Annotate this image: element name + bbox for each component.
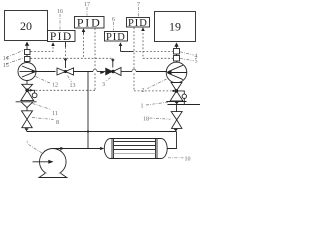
signal sq5 to PID7 [143,32,174,58]
control valve below pump 2 [170,83,186,105]
tank 20 [5,11,48,41]
leader 7 [138,7,140,17]
arrow into PID17 [82,28,86,32]
wire header to valve 18 [176,105,178,112]
svg-text:10: 10 [185,157,191,163]
fan pump 2 [166,62,187,83]
valve 18 [171,112,182,129]
svg-text:7: 7 [137,2,140,8]
wire squares link left [26,55,28,63]
leader 10 [168,157,184,159]
reference labels [3,2,198,163]
controller PID7 [127,18,150,29]
transmitter square 15 [25,57,31,62]
main pipe [36,71,167,73]
wire funnel to valve 8 [26,108,28,111]
valve 8 [22,111,33,128]
wire PID16 output stub [65,42,67,47]
wire PID6 input stub [120,46,122,52]
leader 16 [59,14,61,30]
svg-text:6: 6 [112,17,115,23]
flange bar right [166,101,186,103]
arrow into tank 19 [174,43,178,49]
tank 19 [155,12,196,42]
leader 14 [6,51,23,58]
funnel left [21,102,33,108]
leader 17 [86,7,88,16]
signal actuator right horizontal [134,90,171,92]
arrow valve 18 to return pipe [174,129,178,131]
svg-text:PID: PID [50,31,73,43]
return pipe bottom [27,131,177,133]
valve 3 [105,68,121,76]
leader 12 [36,77,52,84]
fan pump 12 [18,63,37,85]
circulation pump [33,149,67,178]
leader 15 [6,58,23,64]
svg-text:2: 2 [142,88,145,94]
flow arrow into exchanger [100,147,104,150]
svg-text:PID: PID [106,32,126,43]
arrow into PID16 [51,42,55,46]
svg-text:19: 19 [169,20,181,34]
arrow valve 8 to return pipe [24,128,28,131]
signal PID7 down [133,27,135,69]
signal H2 up to PID17 [83,34,85,59]
leader 5 [180,59,194,61]
leader circulation pump [29,145,44,155]
leader 11 [33,104,52,110]
leader 6 [113,22,115,31]
wire center vertical drop [87,72,89,149]
arrow into tank 20 [25,42,29,50]
leader 13 [68,76,72,83]
junction node bottom cross [87,130,89,132]
arrow onto right header [175,102,179,105]
controller PID16 [48,31,76,44]
transmitter square 5 [174,56,180,62]
svg-text:16: 16 [57,9,63,15]
wire valve 3 stem [112,58,114,67]
controller PID6 [105,32,128,43]
wire PID17 input stub [83,31,85,34]
leader 2 [148,79,167,89]
transmitter square 4 [174,49,180,55]
svg-text:14: 14 [3,56,9,62]
arrow into PID7 [141,27,145,31]
arrow into PID6 [119,42,123,46]
svg-text:17: 17 [84,2,90,8]
discharge pipe [53,148,100,150]
leader lines dash-dot [6,7,194,158]
leader 4 [180,52,194,55]
flow arrow discharge [60,147,64,150]
signal sq15 horizontal [31,57,113,59]
leader 1 [146,102,170,105]
valve 13 [57,68,74,75]
arrow down to valve 13 [64,59,68,62]
svg-text:11: 11 [52,111,58,117]
svg-text:1: 1 [141,104,144,110]
svg-text:13: 13 [70,83,76,89]
header line right edge [168,104,201,106]
transmitter square 14 [25,50,31,55]
wire valve 13 stem [65,58,67,68]
signal sq4 to PID6 [133,51,174,53]
svg-text:8: 8 [56,120,59,126]
controller PID17 [75,16,105,30]
heat exchanger 10 [104,139,167,159]
signal PID17 down [94,28,96,69]
svg-text:20: 20 [20,19,32,33]
arrow down to valve 3 [111,59,115,62]
flow arrow on pipe [100,71,104,74]
svg-text:12: 12 [52,83,58,89]
svg-text:PID: PID [77,16,102,30]
control valve below pump 12 [21,84,37,100]
crossover hop left [93,69,97,71]
signal sq14 to PID16 [31,46,54,52]
flange bar left [16,101,37,103]
crossover hop right [132,69,136,71]
signal wires dashed [31,27,174,91]
wire squares link right [176,54,178,62]
signal actuator left horizontal [34,89,96,91]
signal PID16 to valve 13 [65,47,67,58]
svg-text:PID: PID [128,18,148,29]
svg-text:15: 15 [3,63,9,69]
svg-text:5: 5 [195,59,198,65]
pipe corner to exchanger [167,132,177,149]
leader 8 [32,118,54,120]
solid signal stubs and arrows [51,27,145,62]
leader 18 [150,118,171,119]
svg-text:3: 3 [102,82,105,88]
leader 3 [106,78,111,82]
svg-text:18: 18 [143,117,149,123]
